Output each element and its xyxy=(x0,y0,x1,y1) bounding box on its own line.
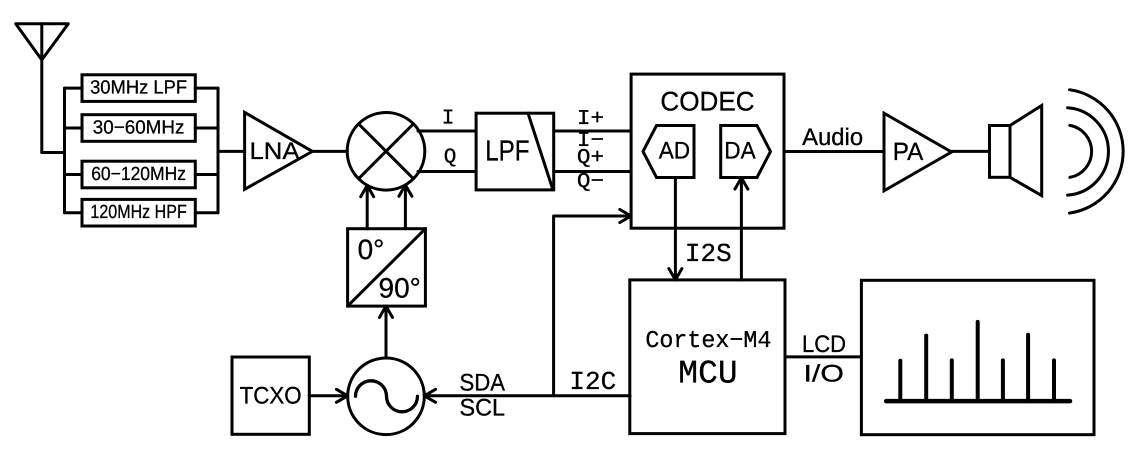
wire AD to MCU I2S arrow xyxy=(669,178,682,280)
svg-text:AD: AD xyxy=(659,138,690,165)
codec U1 box xyxy=(631,74,784,228)
sound wave arc 2 xyxy=(1068,108,1109,195)
svg-text:Q+: Q+ xyxy=(577,147,604,170)
filter F1 30MHz LPF xyxy=(82,75,195,102)
svg-text:I2S: I2S xyxy=(685,239,732,269)
svg-text:TCXO: TCXO xyxy=(240,383,302,410)
sound wave arc 3 xyxy=(1070,90,1124,213)
svg-text:MCU: MCU xyxy=(678,356,737,393)
amplifier PA xyxy=(884,113,952,191)
filter F4 120MHz HPF xyxy=(82,199,195,226)
oscillator TCXO box xyxy=(232,357,309,434)
spectrum baseline xyxy=(886,399,1070,404)
wire I pair to codec xyxy=(554,130,631,133)
wire PA to speaker xyxy=(952,150,990,153)
wire I2C branch to codec arrow xyxy=(554,210,632,396)
svg-text:PA: PA xyxy=(893,138,924,166)
wire mixer Q out xyxy=(418,170,476,173)
speaker xyxy=(990,106,1042,196)
svg-text:Q: Q xyxy=(444,147,457,170)
svg-text:I+: I+ xyxy=(577,108,604,131)
filter F3 60-120MHz xyxy=(82,161,195,188)
wire oscillator to phase shifter arrow xyxy=(380,306,393,358)
wire audio out xyxy=(784,150,884,153)
svg-text:60−120MHz: 60−120MHz xyxy=(91,164,186,185)
wire Q pair to codec xyxy=(554,170,631,173)
svg-text:CODEC: CODEC xyxy=(660,87,754,117)
svg-text:Cortex−M4: Cortex−M4 xyxy=(645,328,771,355)
wire bus taps left xyxy=(65,88,83,213)
phase shifter 0/90 box xyxy=(348,229,426,306)
svg-text:LNA: LNA xyxy=(250,138,300,165)
amplifier LNA xyxy=(245,112,313,189)
wire right filter bus xyxy=(217,88,220,213)
spectrum bars xyxy=(900,322,1054,401)
wire MCU to LCD xyxy=(785,355,861,358)
sound wave arc 1 xyxy=(1070,125,1092,177)
svg-text:Audio: Audio xyxy=(802,124,863,151)
wire mixer I out xyxy=(418,130,476,133)
MCU box xyxy=(630,280,785,434)
svg-text:SDA: SDA xyxy=(460,370,506,397)
converter AD xyxy=(643,126,694,178)
converter DA xyxy=(721,126,771,178)
svg-text:120MHz HPF: 120MHz HPF xyxy=(90,202,186,223)
svg-text:SCL: SCL xyxy=(460,395,506,422)
svg-text:DA: DA xyxy=(724,138,755,165)
wire TCXO to oscillator arrow xyxy=(309,389,347,402)
filter LPF box xyxy=(476,113,554,190)
svg-text:30−60MHz: 30−60MHz xyxy=(93,118,185,139)
svg-text:30MHz LPF: 30MHz LPF xyxy=(90,78,187,99)
wire LNA to mixer xyxy=(312,150,347,153)
wire left filter bus xyxy=(63,88,66,213)
filter F2 30-60MHz xyxy=(82,115,195,142)
wire bus to LNA xyxy=(218,150,245,153)
LCD display box xyxy=(861,280,1094,434)
antenna xyxy=(16,24,69,153)
wire LO 0deg arrow to mixer xyxy=(361,185,374,228)
svg-text:0°: 0° xyxy=(358,234,385,265)
svg-text:LCD: LCD xyxy=(802,331,846,358)
wire LO 90deg arrow to mixer xyxy=(399,185,412,229)
svg-text:90°: 90° xyxy=(379,273,421,304)
wire bus taps right xyxy=(195,88,218,213)
svg-text:I/O: I/O xyxy=(804,360,844,387)
svg-text:Q−: Q− xyxy=(577,171,604,194)
svg-text:LPF: LPF xyxy=(485,136,529,168)
mixer xyxy=(347,113,425,191)
svg-text:I2C: I2C xyxy=(569,367,616,397)
wire antenna to filter bus xyxy=(42,151,65,154)
wire SDA SCL from MCU to oscillator arrow xyxy=(424,389,630,402)
oscillator xyxy=(348,358,425,435)
wire MCU to DA arrow xyxy=(735,178,748,280)
svg-text:I: I xyxy=(442,108,455,131)
